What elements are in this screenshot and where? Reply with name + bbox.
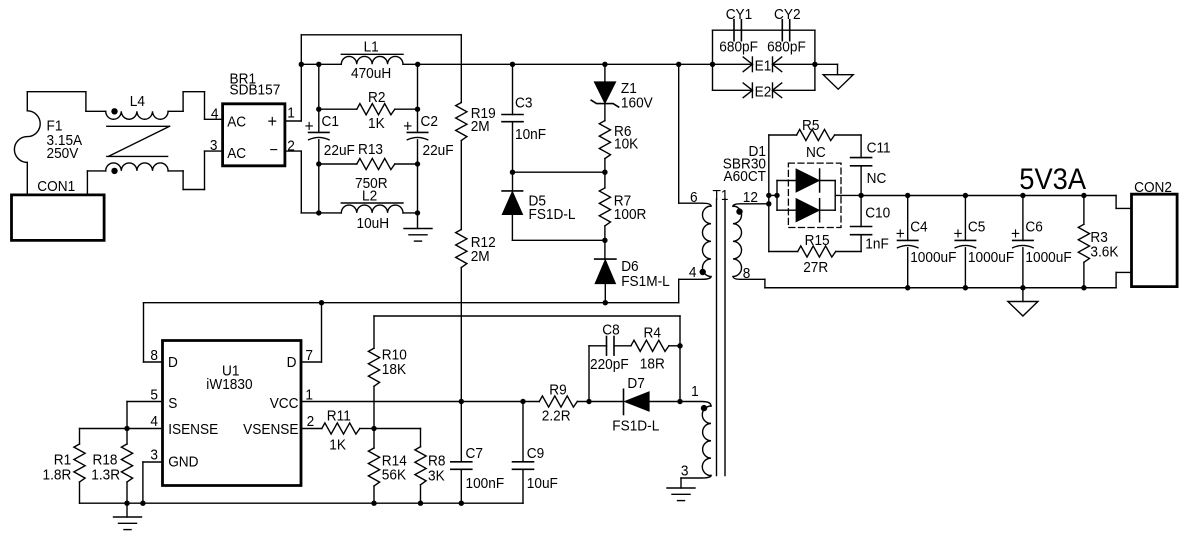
svg-text:NC: NC	[806, 145, 826, 162]
svg-text:SDB157: SDB157	[230, 82, 281, 99]
svg-text:E1: E1	[755, 58, 772, 75]
svg-text:22uF: 22uF	[324, 142, 355, 159]
svg-text:2: 2	[287, 138, 295, 155]
svg-text:2: 2	[307, 413, 315, 430]
svg-text:+: +	[896, 224, 905, 243]
svg-text:1000uF: 1000uF	[968, 249, 1014, 266]
svg-text:+: +	[1011, 224, 1020, 243]
svg-text:C1: C1	[322, 113, 339, 130]
svg-text:680pF: 680pF	[719, 39, 758, 56]
svg-text:R15: R15	[805, 232, 830, 249]
svg-text:R9: R9	[549, 382, 566, 399]
svg-text:VSENSE: VSENSE	[243, 422, 298, 439]
svg-text:10uF: 10uF	[527, 475, 558, 492]
svg-text:C4: C4	[910, 219, 927, 236]
svg-text:1K: 1K	[329, 437, 346, 454]
svg-text:6: 6	[690, 189, 698, 206]
svg-text:5V3A: 5V3A	[1019, 163, 1087, 196]
svg-text:1: 1	[287, 105, 295, 122]
svg-text:220pF: 220pF	[590, 356, 629, 373]
svg-text:FS1M-L: FS1M-L	[621, 273, 670, 290]
svg-text:4: 4	[150, 413, 158, 430]
svg-text:+: +	[403, 117, 412, 136]
svg-text:12: 12	[743, 189, 758, 206]
svg-text:−: −	[270, 142, 279, 160]
svg-text:56K: 56K	[382, 467, 407, 484]
svg-text:2M: 2M	[471, 119, 490, 136]
svg-text:10uH: 10uH	[357, 215, 390, 232]
svg-text:C10: C10	[865, 205, 890, 222]
svg-text:C11: C11	[867, 140, 891, 157]
svg-text:+: +	[305, 117, 314, 136]
svg-text:18R: 18R	[640, 356, 665, 373]
svg-text:680pF: 680pF	[767, 39, 806, 56]
svg-text:18K: 18K	[382, 361, 407, 378]
svg-text:AC: AC	[227, 145, 246, 162]
svg-text:C9: C9	[527, 445, 544, 462]
svg-text:250V: 250V	[47, 145, 79, 162]
svg-text:1: 1	[305, 387, 313, 404]
svg-text:27R: 27R	[803, 259, 828, 276]
svg-text:AC: AC	[227, 114, 246, 131]
svg-text:S: S	[168, 395, 177, 412]
svg-text:1.8R: 1.8R	[43, 467, 72, 484]
svg-text:1: 1	[691, 384, 699, 401]
svg-text:2M: 2M	[471, 248, 490, 265]
svg-text:8: 8	[743, 265, 751, 282]
svg-text:100nF: 100nF	[466, 475, 505, 492]
svg-text:4: 4	[211, 106, 219, 123]
svg-text:160V: 160V	[621, 95, 653, 112]
svg-text:R2: R2	[368, 89, 385, 106]
svg-text:100R: 100R	[614, 206, 647, 223]
svg-text:1000uF: 1000uF	[910, 249, 956, 266]
svg-text:10nF: 10nF	[515, 126, 546, 143]
svg-text:1000uF: 1000uF	[1025, 249, 1071, 266]
svg-text:L4: L4	[130, 94, 145, 111]
svg-text:D7: D7	[627, 376, 644, 393]
svg-text:3: 3	[681, 463, 689, 480]
svg-text:C7: C7	[466, 445, 483, 462]
svg-text:22uF: 22uF	[423, 142, 454, 159]
svg-text:3.6K: 3.6K	[1090, 244, 1118, 261]
svg-text:VCC: VCC	[270, 395, 299, 412]
svg-text:R11: R11	[327, 408, 351, 425]
svg-text:5: 5	[150, 387, 158, 404]
svg-text:R4: R4	[644, 325, 661, 342]
svg-text:3: 3	[210, 137, 218, 154]
svg-text:NC: NC	[867, 170, 887, 187]
svg-text:GND: GND	[168, 454, 198, 471]
svg-text:CY1: CY1	[726, 6, 753, 23]
svg-text:FS1D-L: FS1D-L	[529, 206, 576, 223]
svg-text:C2: C2	[421, 113, 438, 130]
svg-text:C3: C3	[515, 95, 532, 112]
svg-text:R5: R5	[802, 117, 819, 134]
svg-text:7: 7	[305, 347, 313, 364]
svg-text:1nF: 1nF	[865, 236, 889, 253]
svg-text:C8: C8	[602, 322, 619, 339]
svg-text:C5: C5	[968, 219, 985, 236]
svg-text:D: D	[287, 354, 297, 371]
svg-text:T1: T1	[713, 187, 729, 204]
svg-text:L1: L1	[364, 39, 379, 56]
svg-text:470uH: 470uH	[351, 65, 391, 82]
svg-text:L2: L2	[362, 188, 377, 205]
svg-text:CON2: CON2	[1134, 180, 1172, 197]
svg-text:R13: R13	[358, 141, 383, 158]
svg-text:1K: 1K	[368, 115, 385, 132]
svg-text:2.2R: 2.2R	[542, 408, 571, 425]
svg-text:+: +	[954, 224, 963, 243]
svg-text:E2: E2	[755, 84, 772, 101]
svg-text:8: 8	[150, 347, 158, 364]
svg-text:CY2: CY2	[774, 6, 801, 23]
svg-text:3K: 3K	[428, 468, 445, 485]
svg-text:10K: 10K	[614, 136, 639, 153]
svg-text:3: 3	[150, 447, 158, 464]
svg-text:1.3R: 1.3R	[91, 467, 120, 484]
svg-text:iW1830: iW1830	[206, 376, 252, 393]
svg-text:C6: C6	[1025, 219, 1042, 236]
svg-text:CON1: CON1	[37, 179, 75, 196]
svg-text:FS1D-L: FS1D-L	[612, 418, 659, 435]
svg-text:4: 4	[689, 264, 697, 281]
svg-text:A60CT: A60CT	[724, 168, 767, 185]
svg-text:ISENSE: ISENSE	[168, 422, 218, 439]
svg-text:D: D	[168, 354, 178, 371]
svg-text:+: +	[268, 110, 278, 131]
